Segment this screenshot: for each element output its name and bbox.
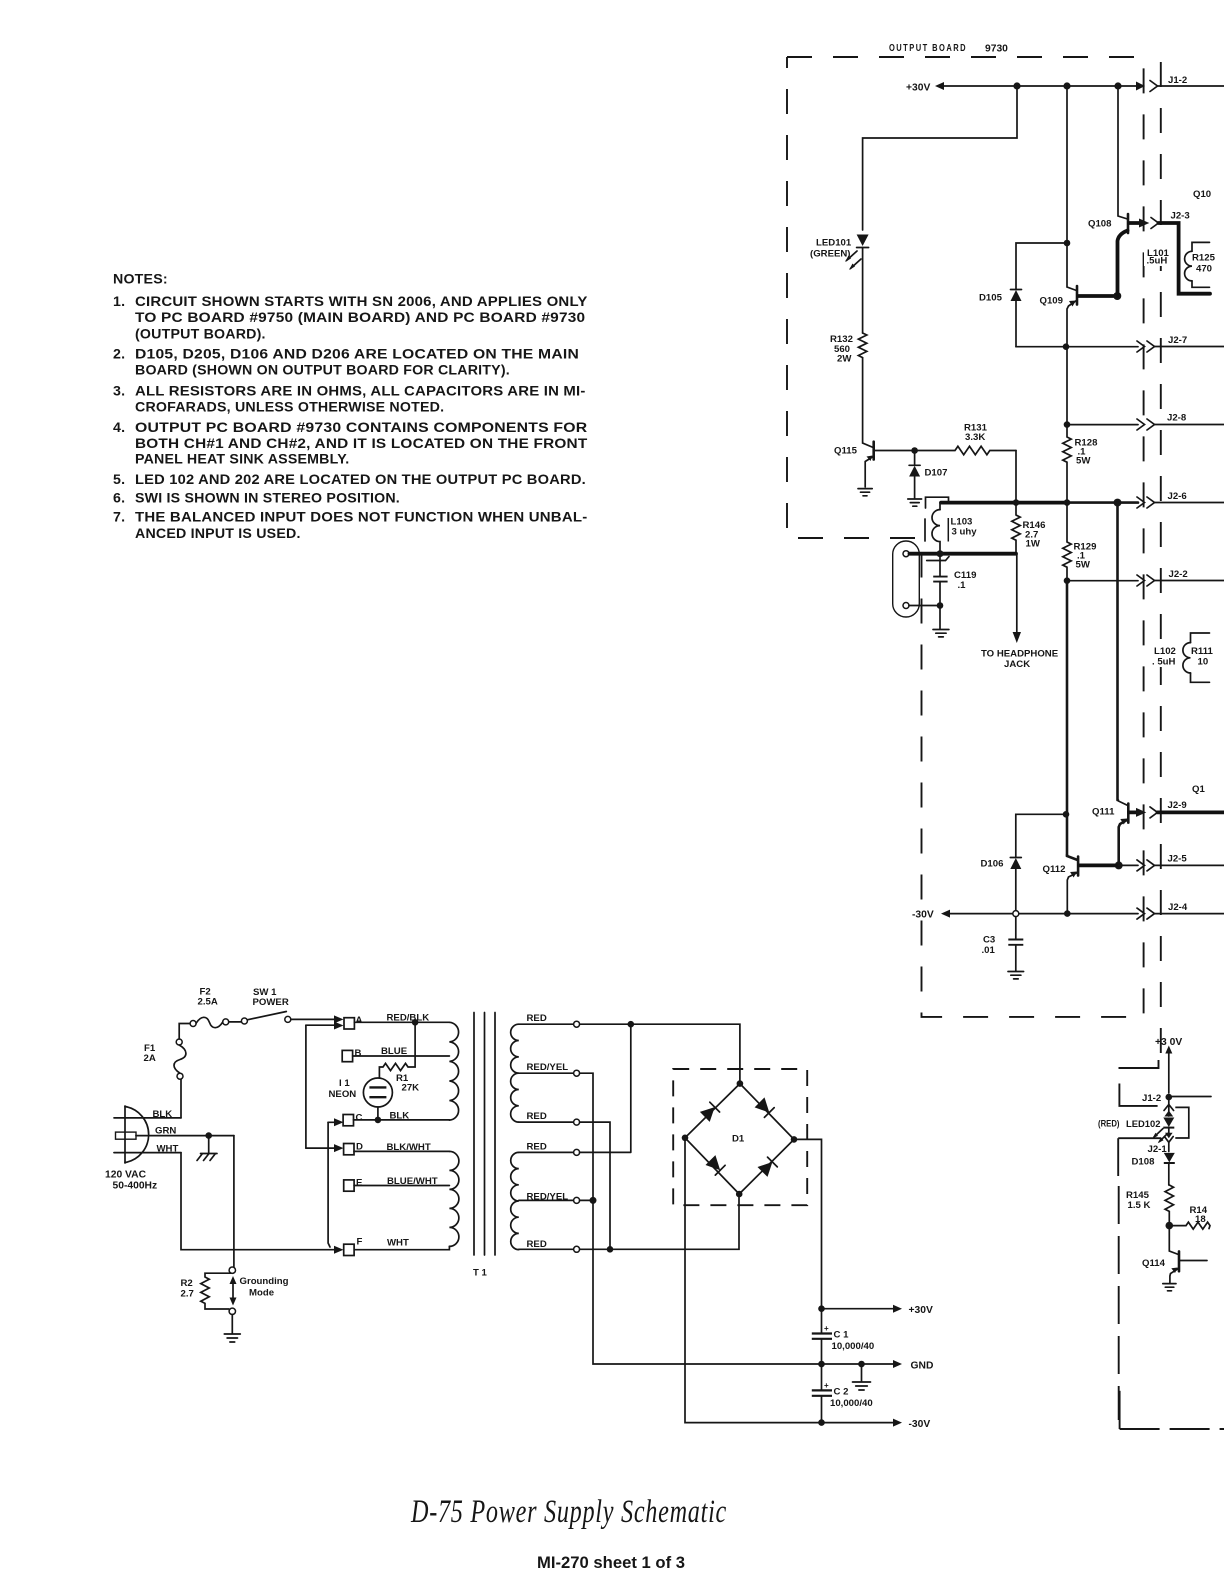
chassis ground stub on GND — [853, 1361, 871, 1390]
svg-text:BLUE/WHT: BLUE/WHT — [387, 1176, 438, 1187]
svg-text:Q108: Q108 — [1088, 219, 1112, 230]
connector J2-2 — [1067, 569, 1224, 586]
LED102 emission arrows — [1152, 1129, 1167, 1144]
wire D105 top loop — [1016, 243, 1067, 289]
wire center tap down to GND rail — [593, 1200, 822, 1364]
svg-text:NEON: NEON — [329, 1089, 357, 1100]
svg-text:3 uhy: 3 uhy — [952, 527, 978, 538]
chassis ground on GRN — [197, 1132, 217, 1160]
node D106 top on rail — [1063, 811, 1070, 818]
connector J2-8 — [1067, 413, 1224, 431]
+30V rail label and arrow — [906, 82, 944, 94]
terminal F — [344, 1237, 363, 1256]
connector J2-6 — [1137, 491, 1224, 508]
resistor R131 on base wire — [915, 423, 1016, 455]
svg-text:NOTES:: NOTES: — [113, 272, 168, 288]
resistor R2 — [181, 1273, 233, 1309]
wire R132 to Q115 collector — [863, 358, 874, 448]
resistor R145 — [1126, 1185, 1174, 1226]
svg-text:J2-6: J2-6 — [1168, 491, 1187, 502]
svg-text:ANCED INPUT IS USED.: ANCED INPUT IS USED. — [135, 526, 301, 542]
wire BLK up to fuse F1 — [180, 1079, 182, 1118]
svg-text:C: C — [356, 1113, 363, 1124]
LED102 diode — [1163, 1118, 1174, 1134]
svg-text:POWER: POWER — [253, 997, 289, 1008]
inductor L101 — [1144, 242, 1210, 287]
to headphone jack arrow — [981, 554, 1059, 670]
fuse F2 — [190, 987, 229, 1028]
ground at Q115 emitter — [858, 489, 872, 496]
svg-text:10,000/40: 10,000/40 — [832, 1341, 875, 1352]
neon lamp I1 — [329, 1078, 393, 1120]
wire F2 to SW1 — [229, 1021, 242, 1023]
wire D105 bottom loop — [1016, 346, 1066, 348]
svg-text:Q115: Q115 — [834, 446, 858, 457]
-30V label and arrow — [912, 910, 950, 921]
svg-text:TO HEADPHONE: TO HEADPHONE — [981, 649, 1059, 660]
svg-text:RED/BLK: RED/BLK — [387, 1013, 430, 1024]
diode D1c bottom-left arm — [706, 1155, 726, 1175]
primary winding wires — [353, 1022, 450, 1249]
svg-text:J2-8: J2-8 — [1167, 413, 1187, 424]
terminal A — [344, 1015, 363, 1029]
grounding mode switch — [229, 1267, 289, 1315]
plug prong GRN — [116, 1132, 234, 1139]
svg-text:D-75 Power Supply Schematic: D-75 Power Supply Schematic — [410, 1494, 727, 1530]
terminal C — [343, 1113, 362, 1126]
transistor Q114 — [1142, 1226, 1207, 1283]
svg-text:4.: 4. — [113, 420, 125, 436]
svg-text:J1-2: J1-2 — [1168, 75, 1187, 86]
wire jumper C to F — [328, 1118, 343, 1247]
wire J2-3 thick loop through L101 — [1159, 223, 1211, 294]
svg-text:D105: D105 — [979, 293, 1003, 304]
connector chevrons J2-1 downward — [1164, 1133, 1173, 1152]
wire bridge right vertex to +30V rail — [794, 1139, 822, 1308]
plug prong WHT — [114, 1152, 181, 1154]
svg-text:470: 470 — [1196, 264, 1212, 275]
connector chevrons into J2-1 upward — [1164, 1097, 1174, 1116]
switch SW1 POWER — [241, 987, 290, 1024]
node Q109 base on thick rail — [1113, 292, 1121, 300]
capacitor C2 — [812, 1364, 873, 1423]
transformer T1 core — [473, 1013, 495, 1279]
wire jumper A to D — [306, 1022, 344, 1153]
svg-text:Q109: Q109 — [1040, 296, 1063, 307]
wire SW1 to terminal A with arrow — [291, 1015, 344, 1023]
svg-text:LED102: LED102 — [1126, 1119, 1161, 1130]
plug prong BLK — [114, 1117, 181, 1119]
ground at Q114 emitter — [1163, 1284, 1176, 1291]
svg-text:MI-270 sheet 1 of 3: MI-270 sheet 1 of 3 — [537, 1553, 685, 1572]
svg-text:LED 102 AND 202 ARE LOCATED ON: LED 102 AND 202 ARE LOCATED ON THE OUTPU… — [135, 472, 586, 488]
ground below grounding switch — [224, 1315, 240, 1343]
svg-text:RED: RED — [527, 1111, 547, 1122]
thick rail from J2-6 node down to Q111 collector — [1116, 503, 1119, 800]
bridge rectifier D1 — [682, 1080, 798, 1197]
transistor Q109 — [1040, 243, 1117, 347]
svg-text:+30V: +30V — [906, 83, 930, 94]
resistor R132 — [830, 333, 867, 365]
svg-text:T 1: T 1 — [473, 1268, 488, 1279]
svg-text:JACK: JACK — [1004, 659, 1030, 670]
thick J2-6 output line — [941, 501, 1068, 505]
wire emitter rail x=1067 down to J2-8 — [1066, 347, 1068, 425]
jack sleeve wire — [909, 605, 940, 607]
svg-text:1.: 1. — [113, 294, 125, 310]
svg-text:Q1: Q1 — [1192, 784, 1205, 795]
svg-text:Q114: Q114 — [1142, 1258, 1166, 1269]
svg-text:WHT: WHT — [387, 1238, 409, 1249]
wire R131 right end down to J2-6 line — [1015, 451, 1017, 503]
wire +30V x=1067 down to D105 junction — [1066, 86, 1068, 243]
svg-text:2.: 2. — [113, 347, 125, 363]
node D105 top — [1064, 240, 1071, 247]
resistor R146b partial at edge — [1169, 1205, 1210, 1229]
svg-text:10,000/40: 10,000/40 — [830, 1398, 873, 1409]
svg-text:J2-7: J2-7 — [1168, 335, 1187, 346]
winding labels — [381, 1013, 438, 1249]
fuse F1 — [144, 1039, 186, 1079]
svg-text:3.: 3. — [113, 383, 125, 399]
transistor Q115 — [834, 442, 915, 487]
svg-text:RED: RED — [527, 1239, 547, 1250]
svg-text:E: E — [356, 1178, 363, 1189]
secondary row4 RED wire — [519, 1149, 631, 1155]
svg-text:J2-4: J2-4 — [1168, 902, 1188, 913]
svg-text:ALL RESISTORS ARE IN OHMS, ALL: ALL RESISTORS ARE IN OHMS, ALL CAPACITOR… — [135, 383, 586, 399]
svg-text:10: 10 — [1198, 657, 1209, 668]
svg-text:CIRCUIT SHOWN STARTS WITH SN 2: CIRCUIT SHOWN STARTS WITH SN 2006, AND A… — [135, 294, 588, 310]
transformer T1 primary coils — [449, 1022, 459, 1246]
svg-text:LED101: LED101 — [816, 238, 852, 249]
+30V output — [818, 1305, 933, 1316]
svg-text:6.: 6. — [113, 491, 125, 507]
LED101 emission arrows — [845, 251, 861, 270]
svg-text:+: + — [824, 1324, 829, 1333]
svg-text:2.5A: 2.5A — [198, 997, 218, 1008]
LED101 labels — [810, 238, 852, 260]
node on +30V rail x=1067 — [1063, 82, 1070, 89]
transistor Q108 — [1088, 86, 1149, 296]
node neon bottom on C wire — [375, 1117, 382, 1124]
svg-text:GND: GND — [911, 1361, 934, 1372]
svg-text:RED: RED — [527, 1142, 547, 1153]
svg-text:SWI IS SHOWN IN STEREO POSITIO: SWI IS SHOWN IN STEREO POSITION. — [135, 491, 400, 507]
open junction D106/C3 on -30V line — [1013, 911, 1019, 917]
LED101 diode — [857, 235, 869, 334]
connector J2-3 — [1151, 211, 1190, 229]
svg-text:+: + — [824, 1381, 829, 1390]
svg-text:(RED): (RED) — [1098, 1119, 1120, 1130]
svg-text:Grounding: Grounding — [240, 1276, 289, 1287]
svg-text:Q112: Q112 — [1043, 864, 1066, 875]
svg-text:C3: C3 — [983, 935, 995, 946]
svg-text:BOARD (SHOWN ON OUTPUT BOARD F: BOARD (SHOWN ON OUTPUT BOARD FOR CLARITY… — [135, 363, 510, 379]
LED102 labels — [1098, 1119, 1167, 1156]
secondary row3 RED wire — [519, 1119, 610, 1249]
svg-text:R111: R111 — [1191, 646, 1214, 657]
terminal D — [344, 1142, 363, 1155]
secondary row2 RED/YEL wire — [519, 1070, 593, 1197]
GND output — [818, 1360, 933, 1372]
svg-text:. 5uH: . 5uH — [1152, 657, 1176, 668]
resistor R128 — [1063, 425, 1098, 503]
transformer T1 secondary coils — [511, 1024, 519, 1249]
plug labels — [105, 1109, 178, 1192]
svg-text:BLK: BLK — [390, 1111, 410, 1122]
svg-text:BOTH CH#1 AND CH#2, AND IT IS: BOTH CH#1 AND CH#2, AND IT IS LOCATED ON… — [135, 436, 588, 452]
connector J1-2 top — [1136, 75, 1224, 92]
node Q112 emitter on -30V line — [1064, 910, 1071, 917]
svg-text:.1: .1 — [958, 580, 967, 591]
svg-text:BLUE: BLUE — [381, 1046, 408, 1057]
svg-text:J2-3: J2-3 — [1171, 211, 1190, 222]
inductor L103 — [925, 497, 977, 553]
wire from +30V down to LED101 branch — [863, 86, 1017, 230]
diode D108 — [1132, 1153, 1175, 1185]
thick jack tip line — [910, 552, 1017, 556]
svg-text:3.3K: 3.3K — [965, 432, 985, 443]
diode D1d bottom-right arm — [758, 1157, 778, 1177]
connector J2-5 — [1119, 854, 1224, 871]
svg-text:J2-2: J2-2 — [1169, 569, 1188, 580]
wire D106 branch — [1016, 814, 1066, 857]
svg-text:D107: D107 — [925, 468, 948, 479]
diode D106 — [981, 858, 1022, 911]
connector J2-7 — [1066, 335, 1224, 352]
svg-text:.5uH: .5uH — [1147, 256, 1168, 267]
svg-text:F: F — [357, 1237, 363, 1248]
terminal E — [344, 1178, 363, 1192]
+30V entry label — [1155, 1037, 1182, 1093]
wire bridge left vertex to -30V rail — [685, 1138, 822, 1423]
ground below jack — [933, 606, 949, 637]
capacitor C1 — [812, 1309, 874, 1364]
diode D105 — [979, 290, 1022, 347]
node on +30V rail x=1017 — [1013, 82, 1020, 89]
output board label — [889, 43, 1008, 55]
node J2-6 x=1016 (R131/R146) — [1013, 499, 1020, 506]
svg-text:7.: 7. — [113, 510, 125, 526]
svg-text:CROFARADS, UNLESS OTHERWISE NO: CROFARADS, UNLESS OTHERWISE NOTED. — [135, 399, 444, 415]
svg-text:2A: 2A — [144, 1053, 156, 1064]
wire emitter rail continues down — [1066, 581, 1069, 855]
secondary row5 RED/YEL wire — [519, 1197, 593, 1203]
ground below C3 — [1008, 972, 1024, 979]
svg-text:-30V: -30V — [912, 910, 934, 921]
svg-text:TO PC BOARD #9750 (MAIN BOARD): TO PC BOARD #9750 (MAIN BOARD) AND PC BO… — [135, 310, 585, 326]
svg-text:WHT: WHT — [157, 1144, 179, 1155]
svg-text:OUTPUT BOARD: OUTPUT BOARD — [889, 43, 967, 54]
connector J2-9 — [1150, 800, 1224, 818]
node R1 top on RED/BLK wire — [412, 1019, 419, 1026]
svg-text:R2: R2 — [181, 1278, 193, 1289]
svg-text:R125: R125 — [1192, 253, 1216, 264]
secondary terminals and labels — [527, 1013, 569, 1250]
svg-text:5.: 5. — [113, 472, 125, 488]
resistor R146 — [1012, 503, 1046, 554]
svg-text:1.5 K: 1.5 K — [1128, 1200, 1151, 1211]
svg-text:OUTPUT PC BOARD #9730 CONTAINS: OUTPUT PC BOARD #9730 CONTAINS COMPONENT… — [135, 420, 587, 436]
node center tap row5 — [590, 1197, 597, 1204]
svg-text:THE BALANCED INPUT DOES NOT FU: THE BALANCED INPUT DOES NOT FUNCTION WHE… — [135, 510, 587, 526]
node J2-8 — [1064, 421, 1071, 428]
bridge rectifier D1 dashed box — [673, 1069, 807, 1205]
output board 9730 dashed border — [787, 57, 1161, 1058]
node on +30V rail x=1118 — [1114, 82, 1121, 89]
node L103 bottom on tip line — [937, 550, 944, 557]
resistor R125 label (cut at page edge) — [1192, 253, 1216, 275]
ground below D107 — [908, 499, 922, 506]
capacitor C119 — [933, 554, 976, 606]
-30V output — [818, 1419, 930, 1430]
svg-text:Q10: Q10 — [1193, 189, 1211, 200]
svg-text:RED/YEL: RED/YEL — [527, 1062, 569, 1073]
svg-text:5W: 5W — [1076, 456, 1091, 467]
svg-text:BLK/WHT: BLK/WHT — [387, 1142, 431, 1153]
terminal B — [342, 1048, 361, 1062]
node row3 jumper on row6 — [607, 1246, 614, 1253]
wire F1 to F2 — [179, 1024, 190, 1040]
node Q115 base / D107 — [911, 447, 918, 454]
svg-text:C 1: C 1 — [834, 1330, 850, 1341]
svg-text:.01: .01 — [982, 945, 996, 956]
node R145 bottom — [1166, 1222, 1174, 1230]
svg-text:50-400Hz: 50-400Hz — [113, 1181, 158, 1192]
svg-text:B: B — [355, 1048, 362, 1059]
svg-text:-30V: -30V — [909, 1419, 931, 1430]
diode D1b top-right arm — [755, 1097, 775, 1117]
resistor R1 — [379, 1025, 419, 1094]
svg-text:D105, D205, D106 AND D206 ARE: D105, D205, D106 AND D206 ARE LOCATED ON… — [135, 347, 579, 363]
node J2-5 / Q111 emitter — [1115, 861, 1123, 869]
svg-text:L102: L102 — [1154, 646, 1176, 657]
capacitor C3 — [982, 917, 1024, 971]
transistor Q112 — [1043, 855, 1119, 914]
svg-text:2W: 2W — [837, 354, 852, 365]
svg-text:A: A — [356, 1015, 363, 1026]
svg-text:2.7: 2.7 — [181, 1289, 194, 1300]
svg-text:27K: 27K — [402, 1083, 420, 1094]
headphone jack body — [893, 541, 920, 617]
svg-text:(OUTPUT BOARD).: (OUTPUT BOARD). — [135, 326, 266, 342]
svg-text:D1: D1 — [732, 1134, 745, 1145]
node J2-2 — [1064, 577, 1071, 584]
connector J2-4 — [1137, 902, 1224, 919]
secondary row6 RED wire — [519, 1196, 739, 1252]
-30V line — [947, 913, 1138, 915]
wire GRN down to grounding switch — [233, 1136, 235, 1268]
diode D107 — [909, 454, 947, 499]
svg-text:18: 18 — [1195, 1214, 1206, 1225]
svg-text:1W: 1W — [1026, 539, 1041, 550]
svg-text:RED: RED — [527, 1013, 547, 1024]
node J2-6 x=1117 thick rail — [1114, 499, 1122, 507]
svg-text:Q111: Q111 — [1092, 807, 1115, 818]
svg-text:GRN: GRN — [155, 1126, 176, 1137]
svg-text:Mode: Mode — [249, 1288, 274, 1299]
LED102 right bracket — [1175, 1107, 1189, 1138]
resistor R129 — [1063, 503, 1097, 581]
jack switch contact — [927, 557, 949, 561]
svg-text:BLK: BLK — [153, 1109, 173, 1120]
AC plug body — [125, 1106, 149, 1163]
main board lower-right boundary — [1118, 1060, 1224, 1429]
svg-text:9730: 9730 — [985, 44, 1008, 55]
svg-text:I 1: I 1 — [339, 1078, 350, 1089]
svg-text:D108: D108 — [1132, 1157, 1156, 1168]
diode D1a top-left arm — [700, 1102, 720, 1122]
svg-text:J1-2: J1-2 — [1142, 1093, 1161, 1104]
wire jumper row1 to row4 — [630, 1024, 632, 1152]
wire WHT down and right to F — [181, 1153, 344, 1254]
wire +30V rail — [941, 85, 1138, 87]
svg-text:C 2: C 2 — [834, 1387, 849, 1398]
inductor L102 — [1150, 633, 1210, 682]
node J1-2 lower — [1166, 1094, 1173, 1101]
notes text block — [113, 272, 588, 543]
svg-text:120 VAC: 120 VAC — [105, 1170, 147, 1181]
transistor Q111 — [1092, 800, 1146, 865]
svg-text:5W: 5W — [1076, 560, 1091, 571]
node J2-6 x=1067 — [1064, 499, 1071, 506]
wire J1-2 to page edge — [1172, 1096, 1211, 1098]
secondary row1 RED wire — [519, 1021, 740, 1081]
svg-text:PANEL HEAT SINK ASSEMBLY.: PANEL HEAT SINK ASSEMBLY. — [135, 451, 349, 467]
node row1 jumper — [628, 1021, 635, 1028]
svg-text:+30V: +30V — [909, 1305, 933, 1316]
svg-text:J2-5: J2-5 — [1168, 854, 1188, 865]
svg-text:(GREEN): (GREEN) — [810, 249, 851, 260]
svg-text:D106: D106 — [981, 859, 1004, 870]
node D105 bottom — [1063, 343, 1070, 350]
svg-text:J2-9: J2-9 — [1168, 800, 1187, 811]
resistor R111 label (cut at page edge) — [1191, 646, 1214, 668]
node C119 bottom — [937, 602, 944, 609]
